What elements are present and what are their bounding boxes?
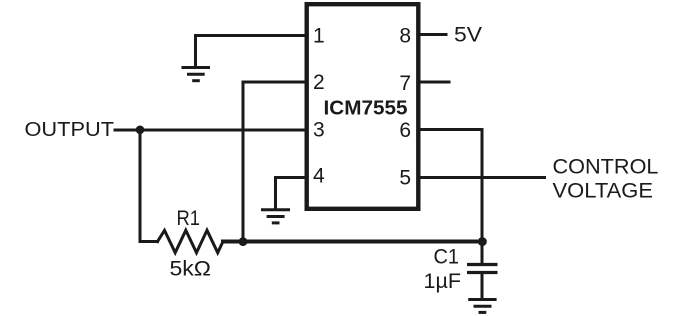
svg-text:6: 6 [399, 119, 411, 142]
svg-text:4: 4 [313, 165, 325, 188]
svg-text:7: 7 [399, 72, 411, 95]
svg-text:5: 5 [399, 167, 411, 190]
svg-text:ICM7555: ICM7555 [324, 97, 408, 120]
svg-text:1µF: 1µF [424, 269, 462, 293]
svg-text:2: 2 [313, 71, 325, 94]
svg-text:OUTPUT: OUTPUT [25, 119, 115, 141]
svg-text:C1: C1 [434, 245, 460, 269]
svg-text:R1: R1 [177, 206, 201, 230]
svg-text:VOLTAGE: VOLTAGE [553, 179, 654, 203]
svg-text:1: 1 [313, 25, 325, 48]
svg-text:3: 3 [313, 119, 325, 142]
svg-text:5kΩ: 5kΩ [170, 257, 212, 281]
svg-text:CONTROL: CONTROL [553, 155, 659, 179]
svg-text:5V: 5V [454, 23, 483, 47]
svg-text:8: 8 [399, 25, 411, 48]
